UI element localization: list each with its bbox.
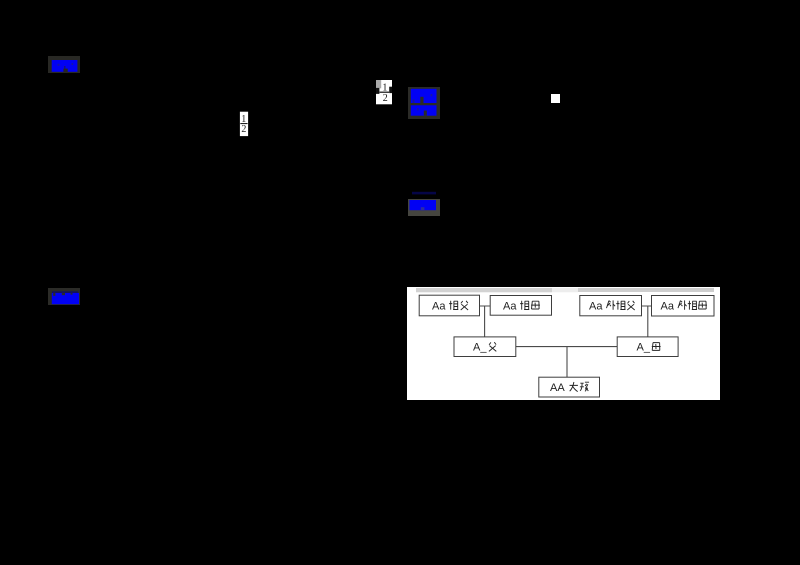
svg-text:2: 2 (383, 93, 388, 104)
svg-text:Aa: Aa (432, 301, 446, 313)
svg-text:Aa: Aa (661, 301, 675, 313)
svg-text:Aa: Aa (589, 301, 603, 313)
svg-text:A_: A_ (473, 342, 487, 354)
svg-text:AA: AA (550, 382, 565, 394)
svg-text:2: 2 (241, 124, 246, 135)
svg-text:Aa: Aa (503, 301, 517, 313)
svg-text:A_: A_ (637, 342, 651, 354)
